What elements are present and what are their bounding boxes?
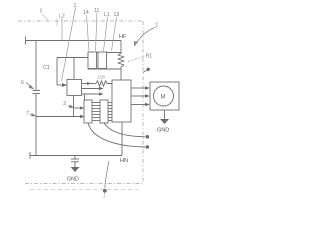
wire node 7 horizontal to transformer <box>36 116 80 118</box>
motor M circle <box>154 86 174 106</box>
capacitor 6 bottom lead <box>35 94 37 156</box>
motor ground lead <box>164 110 166 119</box>
svg-text:14: 14 <box>83 10 89 16</box>
motor feed wire middle with arrow <box>131 95 145 97</box>
wire branch down to winding A top <box>84 94 86 100</box>
leader to external dot 8 <box>105 161 109 188</box>
control box 5 <box>67 80 82 96</box>
svg-text:C1: C1 <box>43 65 50 71</box>
transformer 3 turns ticks between B and box 4 <box>109 103 113 121</box>
svg-text:M: M <box>161 94 166 100</box>
wire control box bottom down <box>73 96 75 117</box>
label 4 leader dot <box>143 70 147 73</box>
converter box 4 <box>112 80 131 122</box>
transformer 3 winding B <box>100 100 108 123</box>
capacitor 6 plates <box>33 90 41 92</box>
svg-text:12b: 12b <box>97 75 105 81</box>
wire top bus L2 <box>25 40 121 42</box>
capacitor 6 top lead <box>35 41 37 91</box>
resistor R1 zigzag <box>118 53 124 69</box>
wire arrow into control box 5 <box>57 84 62 86</box>
secondary lead curve to terminal lower <box>88 123 145 147</box>
svg-text:6: 6 <box>21 80 24 86</box>
motor feed wire top with arrow <box>131 87 145 89</box>
svg-text:1: 1 <box>74 3 77 9</box>
wire C1 corner down <box>56 58 58 86</box>
wire HF block top rail <box>88 52 121 54</box>
node bus left terminal tick <box>25 37 27 45</box>
wire gate drive lower with arrow <box>82 93 99 95</box>
enclosure 2 dashed border bottom <box>25 183 143 185</box>
capacitor to ground plates <box>71 158 79 160</box>
snubber resistor zigzag horizontal <box>96 81 112 86</box>
terminal dot lower <box>146 145 150 149</box>
wire gate drive upper with arrow <box>82 88 99 90</box>
svg-text:HF: HF <box>119 34 127 40</box>
wire to snubber with arrow <box>82 83 97 85</box>
svg-text:HN: HN <box>120 158 128 164</box>
terminal dot upper <box>146 135 150 139</box>
motor feed wire lower with arrow <box>131 104 145 106</box>
capacitor to ground bottom lead <box>74 156 76 160</box>
wire HF block bottom rail <box>88 68 121 70</box>
svg-text:GND: GND <box>67 177 79 183</box>
svg-text:R1: R1 <box>146 54 153 60</box>
enclosure 2 dashed border top <box>18 20 143 22</box>
transformer 3 winding A <box>84 100 92 123</box>
svg-text:L1: L1 <box>104 12 110 18</box>
transformer 3 turns ticks between A and B <box>93 103 100 121</box>
wire control box top to C1 line <box>73 58 75 80</box>
wire bottom bus <box>30 155 122 157</box>
wire bottom bus corner up to box 4 <box>121 122 123 156</box>
wire bus corner down to resistor R1 <box>120 41 122 54</box>
ground triangle bottom center <box>71 167 80 172</box>
ground triangle at motor <box>160 119 169 124</box>
motor box <box>150 82 179 110</box>
svg-text:3: 3 <box>63 101 66 107</box>
wire stub into winding A <box>74 107 80 109</box>
svg-text:GND: GND <box>157 128 169 134</box>
node bottom bus left tick <box>29 152 31 159</box>
enclosure 2 dashed border right <box>142 21 144 183</box>
svg-text:2: 2 <box>155 23 158 29</box>
svg-text:7: 7 <box>26 111 29 117</box>
winding W2 of HF filter <box>98 52 107 69</box>
enclosure 2 faint second bottom line <box>30 189 138 191</box>
winding W1 of HF filter <box>88 52 97 69</box>
faint label mark upper left <box>40 8 42 13</box>
secondary lead curve to terminal upper <box>104 123 145 137</box>
faint leader tick near C1 line <box>56 19 58 27</box>
wire resistor bottom to box 4 <box>120 69 122 80</box>
wire C1 feed line <box>57 57 88 59</box>
